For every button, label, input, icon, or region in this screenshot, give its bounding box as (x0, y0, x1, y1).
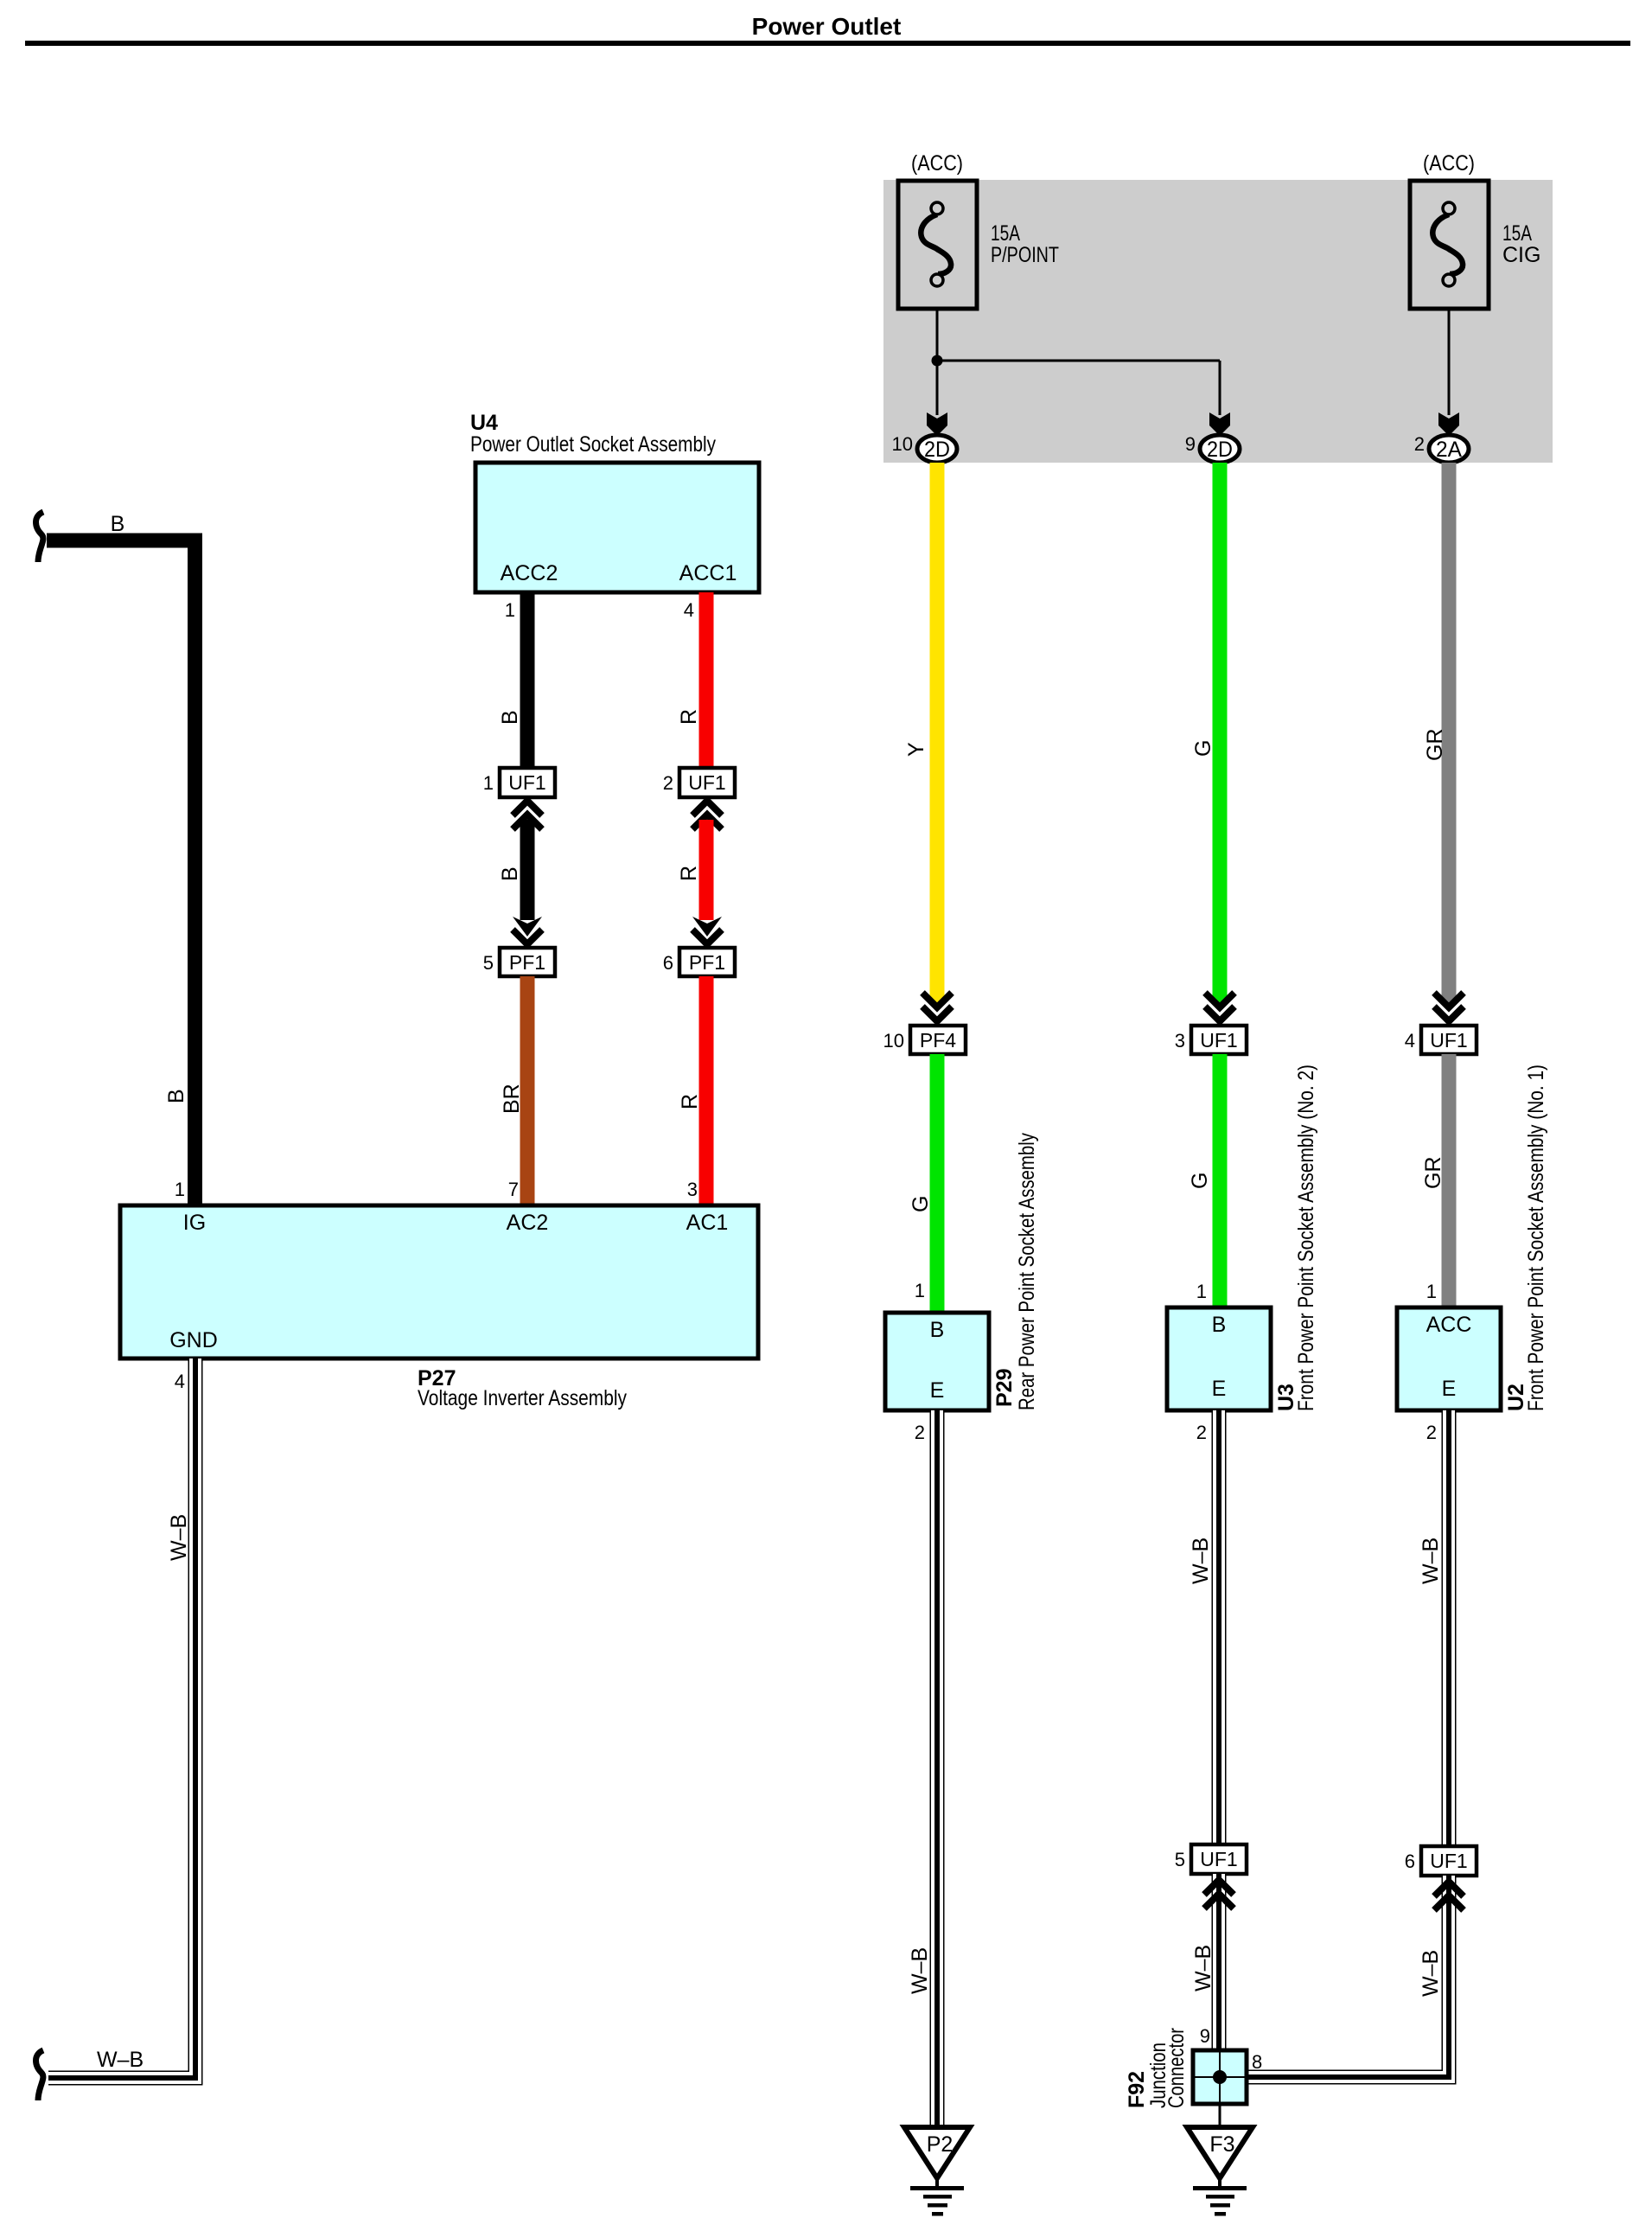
wire W-B from U3 pin 2 to UF1 pin 5 (1212, 1410, 1227, 1844)
svg-text:Rear Power Point Socket Assemb: Rear Power Point Socket Assembly (1015, 1133, 1039, 1410)
ground F3 earth bars (1193, 2186, 1247, 2216)
wire R from UF1 pin 2 to PF1 pin 6 (699, 820, 714, 920)
wire GR from UF1 to U2 pin 1 (1442, 1054, 1457, 1307)
svg-text:3: 3 (1175, 1030, 1185, 1052)
svg-text:W–B: W–B (1189, 1537, 1213, 1584)
svg-text:1: 1 (483, 772, 494, 794)
male chevrons below UF1 pin 1 (513, 801, 542, 829)
svg-text:PF1: PF1 (689, 951, 725, 974)
svg-text:6: 6 (663, 952, 673, 974)
wire B from U4 pin 1 to UF1 pin 1 (520, 592, 535, 768)
svg-text:2: 2 (915, 1422, 925, 1443)
wire W-B from UF1 pin 6 to F92 pin 8 (1247, 1876, 1449, 2077)
wire G from UF1 to U3 pin 1 (1213, 1054, 1228, 1307)
ground P2 earth bars (910, 2186, 964, 2216)
wire GR from 2A pin 2 (1442, 463, 1457, 1000)
wire F3 triangle to earth (1218, 2174, 1221, 2188)
label G (1188, 1173, 1212, 1189)
arrow into connector 2D pin 10 (927, 412, 947, 436)
connector oval 2D pin 9 (1185, 433, 1240, 463)
label U3 (1274, 1384, 1298, 1411)
connector box PF4 pin 10 (883, 1026, 966, 1054)
svg-text:B: B (164, 1089, 188, 1103)
svg-text:G: G (1188, 1173, 1212, 1189)
wire BR from PF1 pin 5 to P27 pin 7 (520, 976, 535, 1205)
header rule (25, 41, 1630, 46)
wire W-B from P29 pin 2 to ground P2 (930, 1410, 945, 2127)
label Rear Power Point Socket Assembly (1015, 1133, 1039, 1410)
wire P2 triangle to earth (935, 2174, 939, 2188)
male chevrons below UF1 pin 6 (1434, 1882, 1464, 1910)
label B (498, 710, 522, 725)
arrow dart into PF1 pin 5 (513, 917, 542, 937)
svg-text:15A: 15A (1502, 221, 1532, 246)
svg-text:UF1: UF1 (688, 771, 725, 794)
svg-text:2A: 2A (1436, 438, 1462, 462)
gray accessory panel (883, 180, 1553, 463)
label W-B vertical left (167, 1514, 191, 1561)
wire W-B from UF1 pin 5 to F92 pin 9 (1212, 1874, 1227, 2050)
wire branch horizontal to 2D pin 9 (937, 360, 1220, 362)
label U2 (1504, 1384, 1528, 1411)
svg-text:15A: 15A (991, 221, 1020, 246)
wire W-B from P27 GND to body ground splice (48, 1358, 195, 2078)
svg-text:9: 9 (1200, 2025, 1210, 2047)
svg-text:P2: P2 (927, 2132, 954, 2157)
label Y (904, 742, 928, 757)
svg-text:Y: Y (904, 742, 928, 757)
wire Y from 2D pin 10 (930, 463, 945, 1000)
label W-B U3 upper (1189, 1537, 1213, 1584)
label Front Power Point Socket Assembly (No. 1) (1524, 1064, 1548, 1411)
fuse 15A CIG box (1410, 181, 1489, 309)
svg-text:R: R (677, 866, 701, 881)
svg-text:IG: IG (183, 1211, 206, 1235)
component U4 Power Outlet Socket Assembly (475, 463, 759, 592)
svg-text:4: 4 (1405, 1030, 1415, 1052)
component U3 Front Power Point Socket Assembly No2 (1167, 1307, 1271, 1410)
svg-text:Connector: Connector (1164, 2028, 1189, 2108)
label GR (1421, 1157, 1445, 1190)
svg-text:F92: F92 (1125, 2071, 1149, 2108)
wire B from battery to P27 pin 1 IG (47, 540, 195, 1205)
svg-text:W–B: W–B (167, 1514, 191, 1561)
svg-text:CIG: CIG (1502, 243, 1540, 267)
connector box UF1 pin 6 (1405, 1846, 1477, 1876)
label F92 (1125, 2071, 1149, 2108)
arrow dart into PF1 pin 6 (692, 917, 722, 937)
connector box PF1 pin 6 (663, 948, 735, 976)
wire R from U4 pin 4 to UF1 pin 2 (699, 592, 714, 768)
svg-text:W–B: W–B (1419, 1537, 1443, 1584)
svg-text:B: B (930, 1318, 945, 1342)
wire G from PF4 to P29 pin 1 (930, 1054, 945, 1313)
junction connector F92 (1193, 2050, 1247, 2104)
label W-B U2 upper (1419, 1537, 1443, 1584)
svg-text:BR: BR (500, 1084, 524, 1114)
svg-text:E: E (1442, 1377, 1457, 1401)
svg-text:GND: GND (169, 1328, 218, 1352)
svg-text:2D: 2D (1207, 438, 1233, 462)
svg-text:1: 1 (1196, 1281, 1207, 1302)
wire R from PF1 pin 6 to P27 pin 3 (699, 976, 714, 1205)
svg-text:AC2: AC2 (507, 1211, 549, 1235)
svg-text:W–B: W–B (97, 2048, 144, 2072)
svg-text:(ACC): (ACC) (1423, 151, 1475, 176)
label W-B U2 lower (1419, 1950, 1443, 1997)
label R (677, 866, 701, 881)
male chevrons below UF1 pin 2 (692, 801, 722, 829)
connector box UF1 pin 4 (1405, 1026, 1477, 1054)
svg-text:1: 1 (1426, 1281, 1437, 1302)
svg-text:W–B: W–B (908, 1947, 932, 1994)
svg-text:2: 2 (663, 772, 673, 794)
svg-text:2: 2 (1426, 1422, 1437, 1443)
svg-text:UF1: UF1 (1200, 1848, 1237, 1870)
wire G from 2D pin 9 (1213, 463, 1228, 1000)
svg-text:8: 8 (1252, 2051, 1262, 2073)
wire B battery feed squiggle end (36, 512, 44, 562)
svg-text:4: 4 (175, 1371, 185, 1392)
connector box PF1 pin 5 (483, 948, 555, 976)
svg-text:B: B (498, 710, 522, 725)
svg-text:GR: GR (1423, 729, 1447, 762)
male chevrons below UF1 pin 5 (1204, 1880, 1234, 1908)
wire from F92 to ground F3 (1219, 2104, 1221, 2129)
fuse element CIG (1432, 202, 1463, 286)
svg-text:R: R (678, 1094, 702, 1109)
component U2 Front Power Point Socket Assembly No1 (1397, 1307, 1501, 1410)
svg-text:10: 10 (883, 1030, 904, 1052)
female chevrons into PF4 pin 10 (922, 993, 952, 1021)
svg-text:AC1: AC1 (686, 1211, 729, 1235)
svg-text:GR: GR (1421, 1157, 1445, 1190)
svg-text:ACC2: ACC2 (501, 561, 558, 585)
connector box UF1 pin 2 (663, 768, 735, 797)
component P27 Voltage Inverter Assembly (120, 1205, 758, 1358)
wire B from UF1 pin 1 to PF1 pin 5 (520, 820, 535, 920)
svg-text:W–B: W–B (1419, 1950, 1443, 1997)
svg-text:Front Power Point Socket Assem: Front Power Point Socket Assembly (No. 1… (1524, 1064, 1548, 1411)
svg-text:1: 1 (505, 599, 515, 621)
arrow into connector 2A pin 2 (1438, 412, 1459, 436)
label G (1191, 740, 1215, 757)
label Front Power Point Socket Assembly (No. 2) (1294, 1064, 1318, 1411)
svg-text:P/POINT: P/POINT (991, 243, 1059, 267)
ground P2 triangle (904, 2127, 970, 2178)
label R (678, 1094, 702, 1109)
svg-text:Voltage Inverter Assembly: Voltage Inverter Assembly (418, 1386, 627, 1410)
svg-text:7: 7 (508, 1179, 519, 1200)
svg-text:UF1: UF1 (1430, 1029, 1467, 1052)
svg-text:UF1: UF1 (508, 771, 545, 794)
connector oval 2D pin 10 (892, 433, 957, 463)
connector box UF1 pin 1 (483, 768, 555, 797)
svg-text:B: B (1212, 1313, 1227, 1337)
svg-text:ACC: ACC (1426, 1313, 1472, 1337)
wire W-B from U2 pin 2 to UF1 pin 6 (1442, 1410, 1457, 1846)
svg-text:G: G (1191, 740, 1215, 757)
svg-text:5: 5 (483, 952, 494, 974)
svg-text:5: 5 (1175, 1849, 1185, 1870)
svg-text:2: 2 (1414, 433, 1425, 455)
svg-text:2: 2 (1196, 1422, 1207, 1443)
svg-text:W–B: W–B (1191, 1945, 1215, 1991)
svg-text:6: 6 (1405, 1851, 1415, 1872)
svg-text:B: B (111, 512, 125, 536)
wire W-B squiggle end bottom left (36, 2050, 44, 2100)
wire from fuse P/POINT down (936, 309, 939, 415)
connector box UF1 pin 5 (1175, 1844, 1247, 1874)
label R (677, 709, 701, 725)
svg-text:UF1: UF1 (1200, 1029, 1237, 1052)
wire from fuse CIG down (1448, 309, 1451, 415)
label P29 (992, 1369, 1017, 1407)
female chevrons into UF1 pin 4 (1434, 993, 1464, 1021)
svg-text:4: 4 (684, 599, 694, 621)
svg-text:G: G (909, 1196, 933, 1212)
svg-text:E: E (1212, 1377, 1227, 1401)
label Junction (1146, 2042, 1170, 2108)
label BR (500, 1084, 524, 1114)
svg-text:(ACC): (ACC) (911, 151, 963, 176)
svg-text:P29: P29 (992, 1369, 1017, 1407)
svg-text:2D: 2D (924, 438, 950, 462)
svg-text:Front Power Point Socket Assem: Front Power Point Socket Assembly (No. 2… (1294, 1064, 1318, 1411)
label B vertical (164, 1089, 188, 1103)
fuse element P/POINT (921, 202, 951, 286)
svg-text:10: 10 (892, 433, 913, 455)
ground F3 triangle (1187, 2127, 1253, 2178)
svg-text:1: 1 (175, 1179, 185, 1200)
fuse 15A P/POINT box (898, 181, 977, 309)
svg-text:F3: F3 (1209, 2132, 1234, 2157)
connector oval 2A pin 2 (1414, 433, 1469, 463)
svg-text:ACC1: ACC1 (679, 561, 737, 585)
label Connector (1164, 2028, 1189, 2108)
junction node dot (932, 355, 943, 367)
component P29 Rear Power Point Socket Assembly (885, 1313, 989, 1410)
label W-B P29 column (908, 1947, 932, 1994)
arrow into connector 2D pin 9 (1209, 412, 1230, 436)
svg-text:9: 9 (1185, 433, 1196, 455)
label GR (1423, 729, 1447, 762)
label B (498, 866, 522, 881)
svg-text:1: 1 (915, 1280, 925, 1301)
svg-text:U4: U4 (470, 411, 498, 435)
label W-B U3 lower (1191, 1945, 1215, 1991)
svg-text:PF4: PF4 (920, 1029, 956, 1052)
svg-text:Power Outlet: Power Outlet (752, 13, 902, 40)
label G (909, 1196, 933, 1212)
wire branch down to 2D pin 9 (1219, 361, 1221, 415)
svg-text:3: 3 (687, 1179, 698, 1200)
svg-text:B: B (498, 866, 522, 881)
svg-text:UF1: UF1 (1430, 1850, 1467, 1872)
connector box UF1 pin 3 (1175, 1026, 1247, 1054)
female chevrons into UF1 pin 3 (1205, 993, 1234, 1021)
svg-text:PF1: PF1 (509, 951, 545, 974)
svg-text:R: R (677, 709, 701, 725)
svg-text:E: E (930, 1378, 945, 1403)
svg-text:Power Outlet Socket Assembly: Power Outlet Socket Assembly (470, 432, 716, 457)
